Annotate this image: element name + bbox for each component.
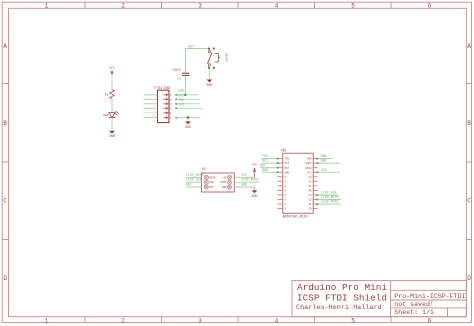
svg-text:3: 3 [198, 2, 202, 9]
svg-text:GND: GND [321, 159, 327, 163]
wire RST to U1 [260, 167, 279, 169]
resistor R1 [105, 90, 115, 99]
wire net DTR from FTDI [176, 94, 199, 96]
wire FTDI pin stub left row6 [144, 117, 158, 119]
wire FTDI pin stub left row3 [144, 103, 158, 105]
svg-text:RST: RST [260, 163, 266, 167]
svg-text:U$1: U$1 [281, 149, 287, 154]
svg-text:Charles-Henri Hallard: Charles-Henri Hallard [296, 304, 382, 312]
junction GND (FTDI) [187, 116, 190, 119]
svg-text:TXO: TXO [262, 154, 268, 158]
svg-text:ARDUINO_MINI: ARDUINO_MINI [282, 215, 308, 219]
IC U1 ARDUINO_MINI [278, 149, 318, 220]
svg-text:B: B [467, 120, 471, 127]
wire SW1 to ground [208, 69, 210, 80]
svg-text:5: 5 [351, 317, 355, 324]
svg-text:RAW: RAW [321, 154, 327, 158]
svg-text:GND: GND [285, 171, 290, 174]
svg-text:RST2: RST2 [305, 167, 312, 170]
svg-text:3: 3 [198, 317, 202, 324]
svg-text:RST: RST [209, 186, 214, 189]
svg-text:TXO: TXO [285, 158, 290, 161]
wire VCC from U1 [317, 171, 340, 173]
svg-text:C: C [3, 198, 7, 205]
svg-text:ICSP_MISO: ICSP_MISO [186, 173, 204, 177]
wire ICSP_SCK from U1 [317, 194, 339, 196]
svg-text:6: 6 [428, 2, 432, 9]
wire RST node horizontal [186, 48, 210, 50]
svg-text:5: 5 [351, 2, 355, 9]
svg-text:ICSP_SCK: ICSP_SCK [321, 191, 337, 195]
svg-text:A1: A1 [309, 185, 313, 188]
power flag VCC (ICSP) [252, 164, 258, 178]
svg-text:GND: GND [252, 194, 258, 198]
ground (reset button) [206, 80, 212, 87]
svg-text:A2: A2 [309, 180, 313, 183]
wire RXI to U1 [262, 162, 279, 164]
wire ICSP_MOSI from ICSP [234, 181, 259, 183]
svg-text:U2: U2 [202, 167, 206, 171]
power flag VCC (power LED chain) [109, 66, 115, 76]
wire LED to ground [111, 118, 113, 131]
wire ICSP_MOSI from U1 [317, 203, 341, 205]
svg-text:C: C [467, 198, 471, 205]
svg-text:GND: GND [241, 183, 247, 187]
svg-text:VCC: VCC [179, 103, 185, 107]
svg-text:ICSP_SCK: ICSP_SCK [186, 178, 202, 182]
svg-text:B: B [3, 120, 7, 127]
wire ICSP_SCK to ICSP [186, 181, 202, 183]
svg-text:RXI: RXI [285, 162, 290, 165]
svg-text:4: 4 [275, 317, 279, 324]
svg-text:GND: GND [206, 83, 212, 87]
svg-text:RXI: RXI [178, 94, 184, 98]
svg-text:A: A [467, 43, 471, 50]
connector J1 FTDI-GND [154, 87, 172, 123]
wire R1 to LED D1 [111, 99, 113, 113]
svg-text:A0: A0 [309, 190, 313, 193]
wire GND from ICSP [234, 187, 254, 190]
svg-text:ICSP_MOSI: ICSP_MOSI [241, 178, 259, 182]
svg-text:VCC: VCC [109, 66, 115, 70]
wire capacitor C1 to DTR junction [185, 76, 187, 95]
svg-text:10: 10 [309, 208, 313, 211]
svg-text:GND: GND [222, 186, 227, 189]
svg-text:ICSP_MOSI: ICSP_MOSI [321, 200, 339, 204]
svg-text:R1: R1 [105, 94, 109, 97]
svg-text:13: 13 [309, 194, 313, 197]
ground (FTDI) [185, 118, 191, 129]
wire VCC to R1 [111, 75, 113, 91]
wire net RXI from FTDI [176, 99, 201, 101]
wire net GND from FTDI [176, 117, 201, 119]
svg-text:not saved!: not saved! [394, 301, 434, 308]
capacitor C1 [172, 68, 189, 80]
svg-text:RST: RST [188, 44, 194, 48]
svg-text:1: 1 [45, 2, 49, 9]
svg-text:VCC: VCC [252, 164, 258, 167]
LED D1 PWR [103, 111, 118, 118]
wire net TXO from FTDI [176, 103, 201, 105]
svg-text:6: 6 [428, 317, 432, 324]
svg-text:A: A [3, 43, 7, 50]
wire FTDI pin stub left row5 [144, 112, 158, 114]
wire RAW from U1 [317, 158, 333, 160]
svg-text:Arduino Pro Mini: Arduino Pro Mini [297, 282, 387, 293]
svg-text:RST: RST [285, 167, 290, 170]
wire GND to U1 [262, 171, 279, 173]
svg-text:GND: GND [262, 168, 268, 172]
wire FTDI pin stub left row1 [144, 94, 158, 96]
svg-text:C1: C1 [177, 78, 181, 81]
ground (ICSP) [252, 190, 258, 198]
svg-text:RESET: RESET [225, 53, 228, 62]
svg-text:4: 4 [275, 2, 279, 9]
wire capacitor C1 to RST node [185, 49, 187, 73]
wire GND from U1 [317, 162, 340, 164]
svg-text:MOSI: MOSI [221, 181, 228, 184]
svg-text:D: D [3, 275, 7, 282]
svg-text:1: 1 [45, 317, 49, 324]
svg-text:PWR: PWR [103, 114, 109, 117]
svg-text:2: 2 [121, 2, 125, 9]
svg-text:D: D [467, 275, 471, 282]
svg-text:VCC: VCC [321, 168, 327, 172]
wire TXO to U1 [262, 158, 279, 160]
svg-text:DTR: DTR [179, 89, 185, 93]
svg-text:VCC: VCC [307, 171, 312, 174]
svg-text:100nF: 100nF [172, 68, 181, 71]
wire RST to ICSP [186, 186, 202, 188]
svg-text:GND2: GND2 [305, 162, 312, 165]
svg-text:GND: GND [185, 125, 191, 129]
svg-text:ICSP FTDI Shield: ICSP FTDI Shield [297, 293, 387, 304]
svg-text:MISO: MISO [209, 176, 216, 179]
svg-text:RXI: RXI [262, 159, 268, 163]
svg-text:RAW: RAW [307, 158, 312, 161]
svg-text:RST: RST [186, 183, 192, 187]
wire ICSP_MISO to ICSP [186, 176, 202, 178]
wire ICSP_MISO from U1 [317, 199, 341, 201]
wire VCC from ICSP [234, 176, 254, 178]
svg-text:SCK: SCK [209, 181, 214, 184]
svg-text:Sheet: 1/1: Sheet: 1/1 [394, 309, 434, 316]
svg-text:11: 11 [309, 203, 313, 206]
svg-text:+5V: +5V [222, 176, 227, 179]
ground (power LED) [109, 131, 115, 138]
wire FTDI pin stub left row2 [144, 98, 158, 100]
wire net VCC from FTDI [176, 108, 203, 110]
svg-text:A3: A3 [309, 176, 313, 179]
junction DTR / C1 [184, 93, 187, 96]
svg-text:GND: GND [109, 134, 115, 138]
wire FTDI pin stub left row4 [144, 107, 158, 109]
connector U2 ICSP header [202, 167, 235, 192]
svg-text:Pro-Mini-ICSP-FTDI: Pro-Mini-ICSP-FTDI [394, 293, 465, 300]
svg-text:2: 2 [121, 317, 125, 324]
svg-text:ICSP_MISO: ICSP_MISO [321, 195, 339, 199]
svg-text:VCC: VCC [241, 173, 247, 177]
push button SW1 RESET [204, 48, 227, 69]
svg-text:TXO: TXO [178, 98, 184, 102]
svg-text:12: 12 [309, 199, 313, 202]
